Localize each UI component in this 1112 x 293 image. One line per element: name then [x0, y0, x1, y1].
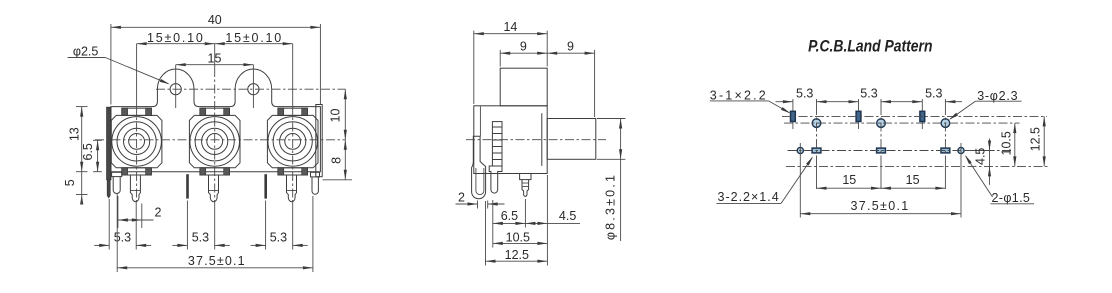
svg-text:5.3: 5.3 [860, 86, 877, 100]
svg-text:15: 15 [906, 173, 920, 187]
pad slot 2.2x1.4 #2 [877, 148, 886, 153]
svg-text:5.3: 5.3 [192, 231, 209, 245]
bracket pin far left [107, 180, 110, 198]
internal bracket edge [479, 106, 481, 137]
svg-text:9: 9 [567, 39, 574, 53]
small ground pin jack1 [112, 172, 122, 176]
barrel [547, 119, 596, 160]
vertical centerline jack2 [214, 44, 216, 68]
svg-text:12.5: 12.5 [1028, 127, 1042, 151]
vertical ext slot col 3 [921, 99, 923, 111]
dim 15 x2 land [817, 187, 882, 189]
dim 5.3 x3 top [776, 101, 793, 103]
svg-text:10: 10 [329, 109, 343, 123]
svg-text:8: 8 [330, 157, 344, 164]
svg-text:2: 2 [155, 205, 162, 219]
pad slot 1x2.2 #2 [856, 111, 861, 121]
RCA jack 3 [267, 115, 318, 167]
pad slot 1x2.2 #1 [791, 111, 796, 121]
ribbed column [492, 122, 502, 166]
svg-text:2-φ1.5: 2-φ1.5 [992, 191, 1031, 205]
dim 9 right [547, 52, 594, 54]
svg-text:4.5: 4.5 [974, 148, 988, 165]
vertical centerline jack1 [136, 44, 138, 106]
svg-text:φ2.5: φ2.5 [73, 44, 99, 58]
vertical ext slot col 2 [858, 99, 860, 111]
svg-text:6.5: 6.5 [501, 209, 518, 223]
row centerline bottom pads [788, 150, 1013, 152]
dim 13 left [76, 106, 88, 108]
baseline row [786, 165, 1048, 167]
pad circle phi1.5 #2 [958, 147, 964, 153]
dim 6.5 middle [492, 200, 494, 248]
svg-text:37.5±0.1: 37.5±0.1 [851, 199, 910, 213]
right side bracket plate [316, 105, 322, 177]
front view: 3-port RCA jack body outline with mounting tabs [111, 69, 321, 172]
svg-text:3-2.2×1.4: 3-2.2×1.4 [718, 190, 780, 204]
dim 10 right [344, 89, 346, 140]
pad slot 2.2x1.4 #1 [812, 148, 821, 153]
svg-text:15±0.10: 15±0.10 [147, 31, 205, 45]
center pin side [520, 174, 531, 180]
dim 12.5 land [1043, 116, 1045, 166]
centerline middle view [466, 139, 606, 141]
dim 37.5 bottom [116, 194, 118, 272]
svg-text:37.5±0.1: 37.5±0.1 [188, 254, 246, 268]
svg-text:15: 15 [842, 173, 856, 187]
svg-text:3-1×2.2: 3-1×2.2 [710, 89, 768, 103]
pad circle phi1.5 #1 [797, 147, 803, 153]
svg-text:14: 14 [503, 20, 517, 34]
svg-text:4.5: 4.5 [559, 209, 576, 223]
vertical centerline circle col 1 [816, 99, 818, 106]
dim 15 tabs [176, 64, 254, 66]
svg-text:13: 13 [67, 127, 81, 141]
dim 15&#177;0.10 right [215, 43, 293, 45]
dim 8 right [323, 179, 353, 181]
vertical ext bottom circle 1 [799, 143, 801, 218]
vertical centerline tab1 [175, 65, 177, 108]
bent bracket pin [472, 136, 486, 199]
second bent pin [489, 166, 502, 193]
pad circle phi2.3 #1 [812, 119, 821, 128]
dim 5 left [81, 172, 83, 195]
svg-text:9: 9 [520, 39, 527, 53]
vertical centerline circle col 2 [880, 99, 882, 106]
vertical ext slot col 1 [792, 99, 794, 111]
dim 12.5 middle [485, 201, 487, 266]
horizontal centerline through tab holes [156, 88, 346, 90]
dim 10.5 land [1014, 123, 1016, 166]
dim 4.5 middle [546, 175, 548, 266]
dim 10.5 middle [493, 242, 548, 244]
svg-text:5.3: 5.3 [270, 231, 287, 245]
side view body [474, 106, 547, 174]
side view top block [500, 68, 547, 106]
tab hole right (phi 2.5) [248, 84, 259, 95]
pad circle phi2.3 #3 [941, 119, 950, 128]
dim 14 [473, 31, 475, 104]
dim 40 top [110, 24, 112, 105]
svg-text:5.3: 5.3 [925, 86, 942, 100]
dim 2 middle [477, 201, 479, 209]
svg-text:5.3: 5.3 [114, 231, 131, 245]
dim phi8.3 barrel [597, 118, 625, 120]
svg-text:15±0.10: 15±0.10 [225, 31, 283, 45]
row centerline top circles [784, 122, 1020, 124]
svg-text:15: 15 [208, 52, 222, 66]
RCA jack 1 [111, 115, 162, 167]
RCA jack 2 [189, 115, 240, 167]
pad circle phi2.3 #2 [877, 119, 886, 128]
pad slot 1x2.2 #3 [920, 111, 925, 121]
dim 6.5 left [93, 139, 102, 141]
svg-text:6.5: 6.5 [81, 143, 95, 160]
svg-text:2: 2 [458, 190, 465, 204]
vertical ext bottom circle 2 [960, 143, 962, 218]
horizontal centerline through jacks [95, 139, 346, 141]
dim 37.5 land [800, 213, 961, 215]
svg-text:5: 5 [63, 179, 77, 186]
svg-text:φ8.3±0.1: φ8.3±0.1 [604, 173, 618, 240]
barrel flange [541, 113, 543, 166]
dim 15&#177;0.10 left [137, 43, 215, 45]
small pin jack3 right [311, 172, 320, 177]
thin flat pin jack3 [264, 174, 267, 198]
vertical centerline jack3 [292, 44, 294, 106]
svg-text:40: 40 [208, 13, 222, 27]
dim 9 left [499, 50, 501, 67]
left side bracket plate [107, 107, 111, 180]
dim 2 bottom jack1 [117, 196, 119, 228]
svg-text:12.5: 12.5 [505, 248, 529, 262]
vertical centerline tab2 [252, 65, 254, 108]
tab hole left (phi 2.5) [170, 84, 181, 95]
thin flat pin jack2 [186, 174, 189, 198]
pad slot 2.2x1.4 #3 [941, 148, 950, 153]
svg-text:10.5: 10.5 [506, 231, 530, 245]
row centerline top slots [782, 115, 1047, 117]
svg-text:10.5: 10.5 [999, 131, 1013, 155]
svg-text:P.C.B.Land Pattern: P.C.B.Land Pattern [808, 37, 932, 56]
vertical centerline circle col 3 [944, 99, 946, 106]
dim 4.5 land [965, 150, 995, 152]
svg-text:5.3: 5.3 [796, 86, 813, 100]
dim 5.3 x3 bottom [108, 199, 110, 250]
